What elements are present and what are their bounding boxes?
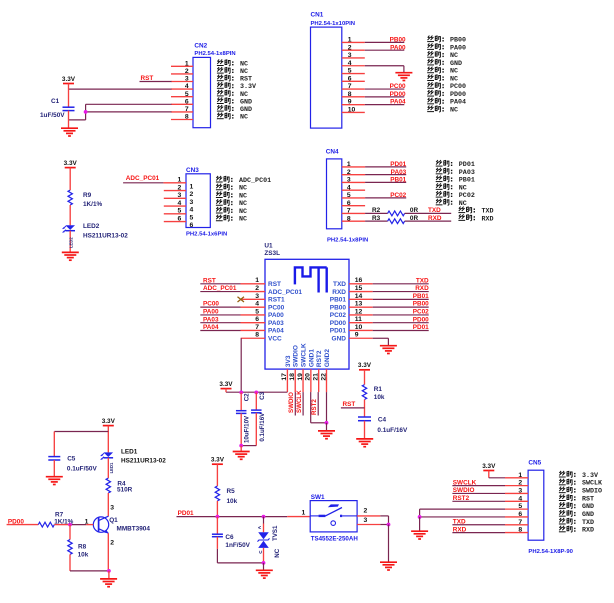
svg-text:R8: R8 — [78, 543, 87, 550]
svg-text:ADC_PC01: ADC_PC01 — [126, 175, 160, 182]
svg-text:RXD: RXD — [428, 215, 442, 222]
svg-text:R1: R1 — [374, 386, 383, 393]
svg-text:1uF/50V: 1uF/50V — [40, 112, 65, 119]
svg-text:PB00: PB00 — [413, 301, 429, 308]
svg-text:RXD: RXD — [415, 285, 429, 292]
svg-text:PA04: PA04 — [268, 328, 284, 335]
svg-text:PD00: PD00 — [390, 91, 406, 98]
svg-text:PH2.54-1x8PIN: PH2.54-1x8PIN — [327, 238, 368, 244]
svg-text:3.3V: 3.3V — [102, 418, 116, 425]
svg-text:MMBT3904: MMBT3904 — [117, 526, 151, 533]
svg-text:3.3V: 3.3V — [358, 362, 372, 369]
svg-text:0.1uF/16V: 0.1uF/16V — [377, 427, 408, 434]
svg-text:SWDIO: SWDIO — [293, 345, 300, 367]
svg-text:PA03: PA03 — [268, 320, 284, 327]
svg-text:3V3: 3V3 — [285, 355, 292, 367]
svg-text:0.1uF/50V: 0.1uF/50V — [67, 465, 98, 472]
svg-text:CN3: CN3 — [186, 167, 199, 174]
svg-text:ADC_PC01: ADC_PC01 — [203, 285, 237, 292]
svg-text:PB01: PB01 — [390, 177, 406, 184]
svg-text:LED1: LED1 — [121, 449, 138, 456]
svg-text:3.3V: 3.3V — [211, 457, 225, 464]
svg-text:CN5: CN5 — [528, 459, 541, 466]
svg-text:PA00: PA00 — [268, 312, 284, 319]
svg-text:PC02: PC02 — [330, 312, 347, 319]
svg-text:0.1uF/16V: 0.1uF/16V — [259, 412, 266, 442]
svg-text:GND: GND — [582, 511, 594, 519]
svg-text:RXD: RXD — [332, 289, 346, 296]
svg-text:PD01: PD01 — [330, 328, 347, 335]
svg-text:RST1: RST1 — [268, 297, 285, 304]
svg-text:PC00: PC00 — [390, 83, 406, 90]
svg-text:RST: RST — [582, 495, 594, 503]
svg-text:SWDIO: SWDIO — [288, 392, 295, 413]
svg-text:1K/1%: 1K/1% — [54, 518, 73, 525]
svg-text:PA04: PA04 — [390, 99, 406, 106]
svg-text:C3: C3 — [259, 391, 266, 399]
svg-text:RST: RST — [141, 75, 154, 82]
svg-text:LED2: LED2 — [68, 237, 73, 248]
svg-text:1: 1 — [85, 518, 89, 525]
svg-text:PH2.54-1X8P-90: PH2.54-1X8P-90 — [528, 549, 573, 555]
svg-text:TXD: TXD — [428, 207, 441, 214]
svg-text:PC02: PC02 — [413, 309, 429, 316]
svg-text:TXD: TXD — [333, 281, 346, 288]
svg-text:Q1: Q1 — [109, 517, 118, 524]
svg-text:PH2.54-1x10PIN: PH2.54-1x10PIN — [311, 21, 356, 27]
svg-text:GND2: GND2 — [324, 349, 331, 367]
svg-text:R9: R9 — [83, 192, 92, 199]
svg-text:PA04: PA04 — [203, 324, 219, 331]
svg-text:PA03: PA03 — [391, 169, 407, 176]
svg-text:C2: C2 — [244, 393, 251, 401]
svg-text:HS211UR13-02: HS211UR13-02 — [83, 232, 128, 239]
svg-text:R2: R2 — [372, 207, 381, 214]
svg-text:5: 5 — [190, 214, 194, 221]
svg-text:ADC_PC01: ADC_PC01 — [268, 289, 302, 296]
svg-text:2: 2 — [110, 540, 114, 547]
svg-text:PD01: PD01 — [390, 161, 406, 168]
svg-text:LED1: LED1 — [109, 462, 114, 473]
svg-text:PD00: PD00 — [330, 320, 347, 327]
svg-text:SWCLK: SWCLK — [582, 480, 603, 488]
svg-text:CN2: CN2 — [194, 43, 207, 50]
svg-text:1: 1 — [302, 509, 306, 516]
svg-text:NC: NC — [274, 548, 281, 557]
svg-text:PA00: PA00 — [203, 309, 219, 316]
svg-text:3.3V: 3.3V — [62, 76, 76, 83]
svg-text:NC: NC — [240, 114, 248, 122]
svg-text:3.3V: 3.3V — [482, 463, 496, 470]
svg-text:RXD: RXD — [482, 215, 494, 223]
svg-text:RST: RST — [268, 281, 281, 288]
svg-text:R3: R3 — [372, 215, 381, 222]
svg-text:TXD: TXD — [453, 518, 466, 525]
svg-text:R5: R5 — [227, 488, 236, 495]
svg-text:VCC: VCC — [268, 335, 282, 342]
svg-text:SWCLK: SWCLK — [300, 343, 307, 367]
svg-text:SWCLK: SWCLK — [453, 479, 477, 486]
svg-text:3: 3 — [364, 517, 368, 524]
svg-text:PD01: PD01 — [413, 324, 429, 331]
svg-text:C6: C6 — [225, 534, 234, 541]
svg-text:C1: C1 — [51, 98, 60, 105]
svg-text:PC02: PC02 — [390, 192, 406, 199]
svg-text:RST2: RST2 — [316, 350, 323, 367]
svg-text:U1: U1 — [264, 243, 273, 250]
svg-text:3.3V: 3.3V — [64, 160, 78, 167]
svg-text:NC: NC — [239, 216, 247, 224]
svg-text:RXD: RXD — [453, 526, 467, 533]
svg-text:GND: GND — [582, 503, 594, 511]
svg-text:PB01: PB01 — [330, 297, 347, 304]
svg-text:RST2: RST2 — [311, 399, 318, 415]
svg-text:CN1: CN1 — [311, 11, 324, 18]
svg-text:2: 2 — [364, 507, 368, 514]
svg-text:TVS1: TVS1 — [272, 525, 279, 541]
svg-text:GND1: GND1 — [308, 349, 315, 367]
svg-text:4: 4 — [190, 207, 194, 214]
svg-text:3.3V: 3.3V — [219, 381, 233, 388]
svg-text:SWCLK: SWCLK — [296, 390, 303, 413]
svg-text:PB00: PB00 — [390, 37, 406, 44]
svg-text:TXD: TXD — [416, 277, 429, 284]
svg-text:TS4552E-250AH: TS4552E-250AH — [311, 535, 359, 542]
svg-text:NC: NC — [450, 107, 458, 115]
svg-text:PB00: PB00 — [330, 304, 347, 311]
svg-text:PC00: PC00 — [203, 301, 219, 308]
svg-text:PC00: PC00 — [268, 304, 285, 311]
svg-text:1nF/50V: 1nF/50V — [225, 542, 250, 549]
svg-text:PH2.54-1x6PIN: PH2.54-1x6PIN — [186, 231, 227, 237]
svg-text:HS211UR13-02: HS211UR13-02 — [121, 457, 166, 464]
svg-text:3.3V: 3.3V — [582, 472, 598, 480]
svg-text:3: 3 — [110, 504, 114, 511]
svg-text:0R: 0R — [410, 215, 419, 222]
svg-text:2: 2 — [190, 191, 194, 198]
svg-text:1K/1%: 1K/1% — [83, 201, 102, 208]
svg-text:SWDIO: SWDIO — [582, 488, 602, 496]
svg-text:1: 1 — [190, 183, 194, 190]
svg-text:LED2: LED2 — [83, 223, 100, 230]
svg-text:PH2.54-1x8PIN: PH2.54-1x8PIN — [194, 51, 235, 57]
svg-text:RXD: RXD — [582, 527, 594, 535]
svg-text:RST: RST — [343, 401, 356, 408]
svg-text:C5: C5 — [67, 456, 76, 463]
svg-text:3: 3 — [190, 199, 194, 206]
svg-text:CN4: CN4 — [326, 149, 339, 156]
svg-text:ZS3L: ZS3L — [264, 250, 280, 257]
svg-text:RST: RST — [203, 277, 216, 284]
svg-text:10uF/10V: 10uF/10V — [244, 415, 251, 443]
svg-text:PD01: PD01 — [178, 510, 194, 517]
svg-text:C4: C4 — [378, 417, 387, 424]
svg-text:10k: 10k — [227, 498, 238, 505]
svg-text:6: 6 — [190, 222, 194, 229]
svg-text:RST2: RST2 — [453, 495, 470, 502]
svg-text:TXD: TXD — [582, 519, 594, 527]
svg-text:PA03: PA03 — [203, 316, 219, 323]
svg-text:PD00: PD00 — [413, 316, 429, 323]
svg-text:SW1: SW1 — [311, 494, 325, 501]
svg-text:10k: 10k — [78, 551, 89, 558]
svg-text:0R: 0R — [410, 207, 419, 214]
svg-text:510R: 510R — [117, 486, 133, 493]
svg-text:SWDIO: SWDIO — [453, 487, 475, 494]
svg-text:PB01: PB01 — [413, 293, 429, 300]
svg-text:PA00: PA00 — [390, 44, 406, 51]
svg-text:GND: GND — [332, 335, 347, 342]
svg-text:10k: 10k — [374, 394, 385, 401]
